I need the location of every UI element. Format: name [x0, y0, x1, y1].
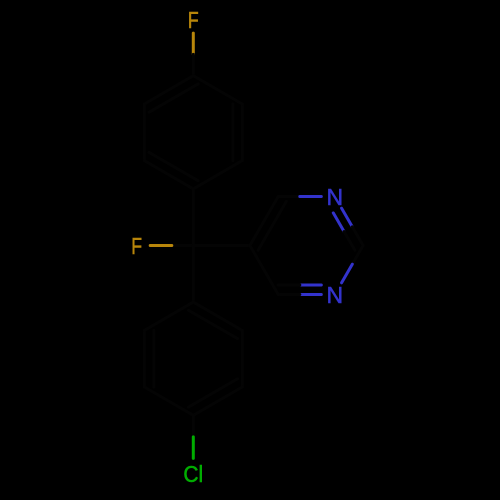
bond quaternary C to central F	[172, 244, 194, 247]
svg-text:N: N	[326, 282, 343, 308]
bond top-ring to quaternary C	[192, 189, 195, 246]
bottom ring bond C-C upper-left	[144, 302, 193, 330]
bottom ring bond C=C upper-right	[193, 302, 242, 330]
pyrimidine bond N3=C4	[300, 293, 322, 296]
svg-text:F: F	[131, 233, 142, 259]
bond C-Cl	[192, 415, 195, 437]
top ring bond C=C lower-left inner line	[149, 152, 198, 180]
bottom ring bond C=C lower-right	[193, 387, 242, 415]
bond C-Cl	[192, 437, 195, 459]
bottom ring bond C=C lower-right inner line	[189, 379, 238, 407]
pyrimidine bond C6-N1	[300, 195, 322, 198]
bond quaternary C to bottom ring	[192, 246, 195, 303]
pyrimidine bond N1=C2	[342, 208, 353, 227]
pyrimidine bond C4-C5	[250, 246, 278, 295]
top ring bond C-C upper-right	[193, 76, 242, 104]
svg-text:N: N	[326, 184, 343, 210]
pyrimidine bond C5=C6 inner line	[258, 201, 286, 250]
bottom ring bond C=C left	[143, 330, 146, 387]
top ring bond C=C right inner line	[231, 104, 234, 161]
svg-text:F: F	[188, 7, 199, 33]
top ring bond C-C left	[143, 104, 146, 161]
pyrimidine bond C2-N3	[352, 246, 363, 265]
pyrimidine bond C6-N1	[278, 195, 300, 198]
top ring bond C=C right	[241, 104, 244, 161]
pyrimidine bond N1=C2 inner line	[344, 232, 355, 251]
bond quaternary C to central F	[150, 244, 172, 247]
pyrimidine bond N1=C2 inner line	[333, 213, 344, 232]
bond F-C (top fluorine to ring)	[192, 54, 195, 75]
top ring bond C=C lower-left	[144, 161, 193, 189]
bottom ring bond C-C lower-left	[144, 387, 193, 415]
top ring bond C=C upper-left inner line	[149, 84, 198, 112]
bottom ring bond C=C left inner line	[152, 330, 155, 387]
pyrimidine bond N3=C4 inner line	[278, 284, 300, 287]
svg-text:Cl: Cl	[183, 461, 203, 487]
bond F-C (top fluorine to ring)	[192, 33, 195, 54]
pyrimidine bond C5=C6	[250, 197, 278, 246]
top ring bond C=C upper-left	[144, 76, 193, 104]
bottom ring bond C-C right	[241, 330, 244, 387]
pyrimidine bond N1=C2	[352, 227, 363, 246]
bottom ring bond C=C upper-right inner line	[189, 310, 238, 338]
pyrimidine bond N3=C4 inner line	[300, 284, 322, 287]
bond quaternary C to pyrimidine C5	[193, 244, 250, 247]
top ring bond C-C lower-right	[193, 161, 242, 189]
pyrimidine bond N3=C4	[278, 293, 300, 296]
pyrimidine bond C2-N3	[342, 264, 353, 283]
